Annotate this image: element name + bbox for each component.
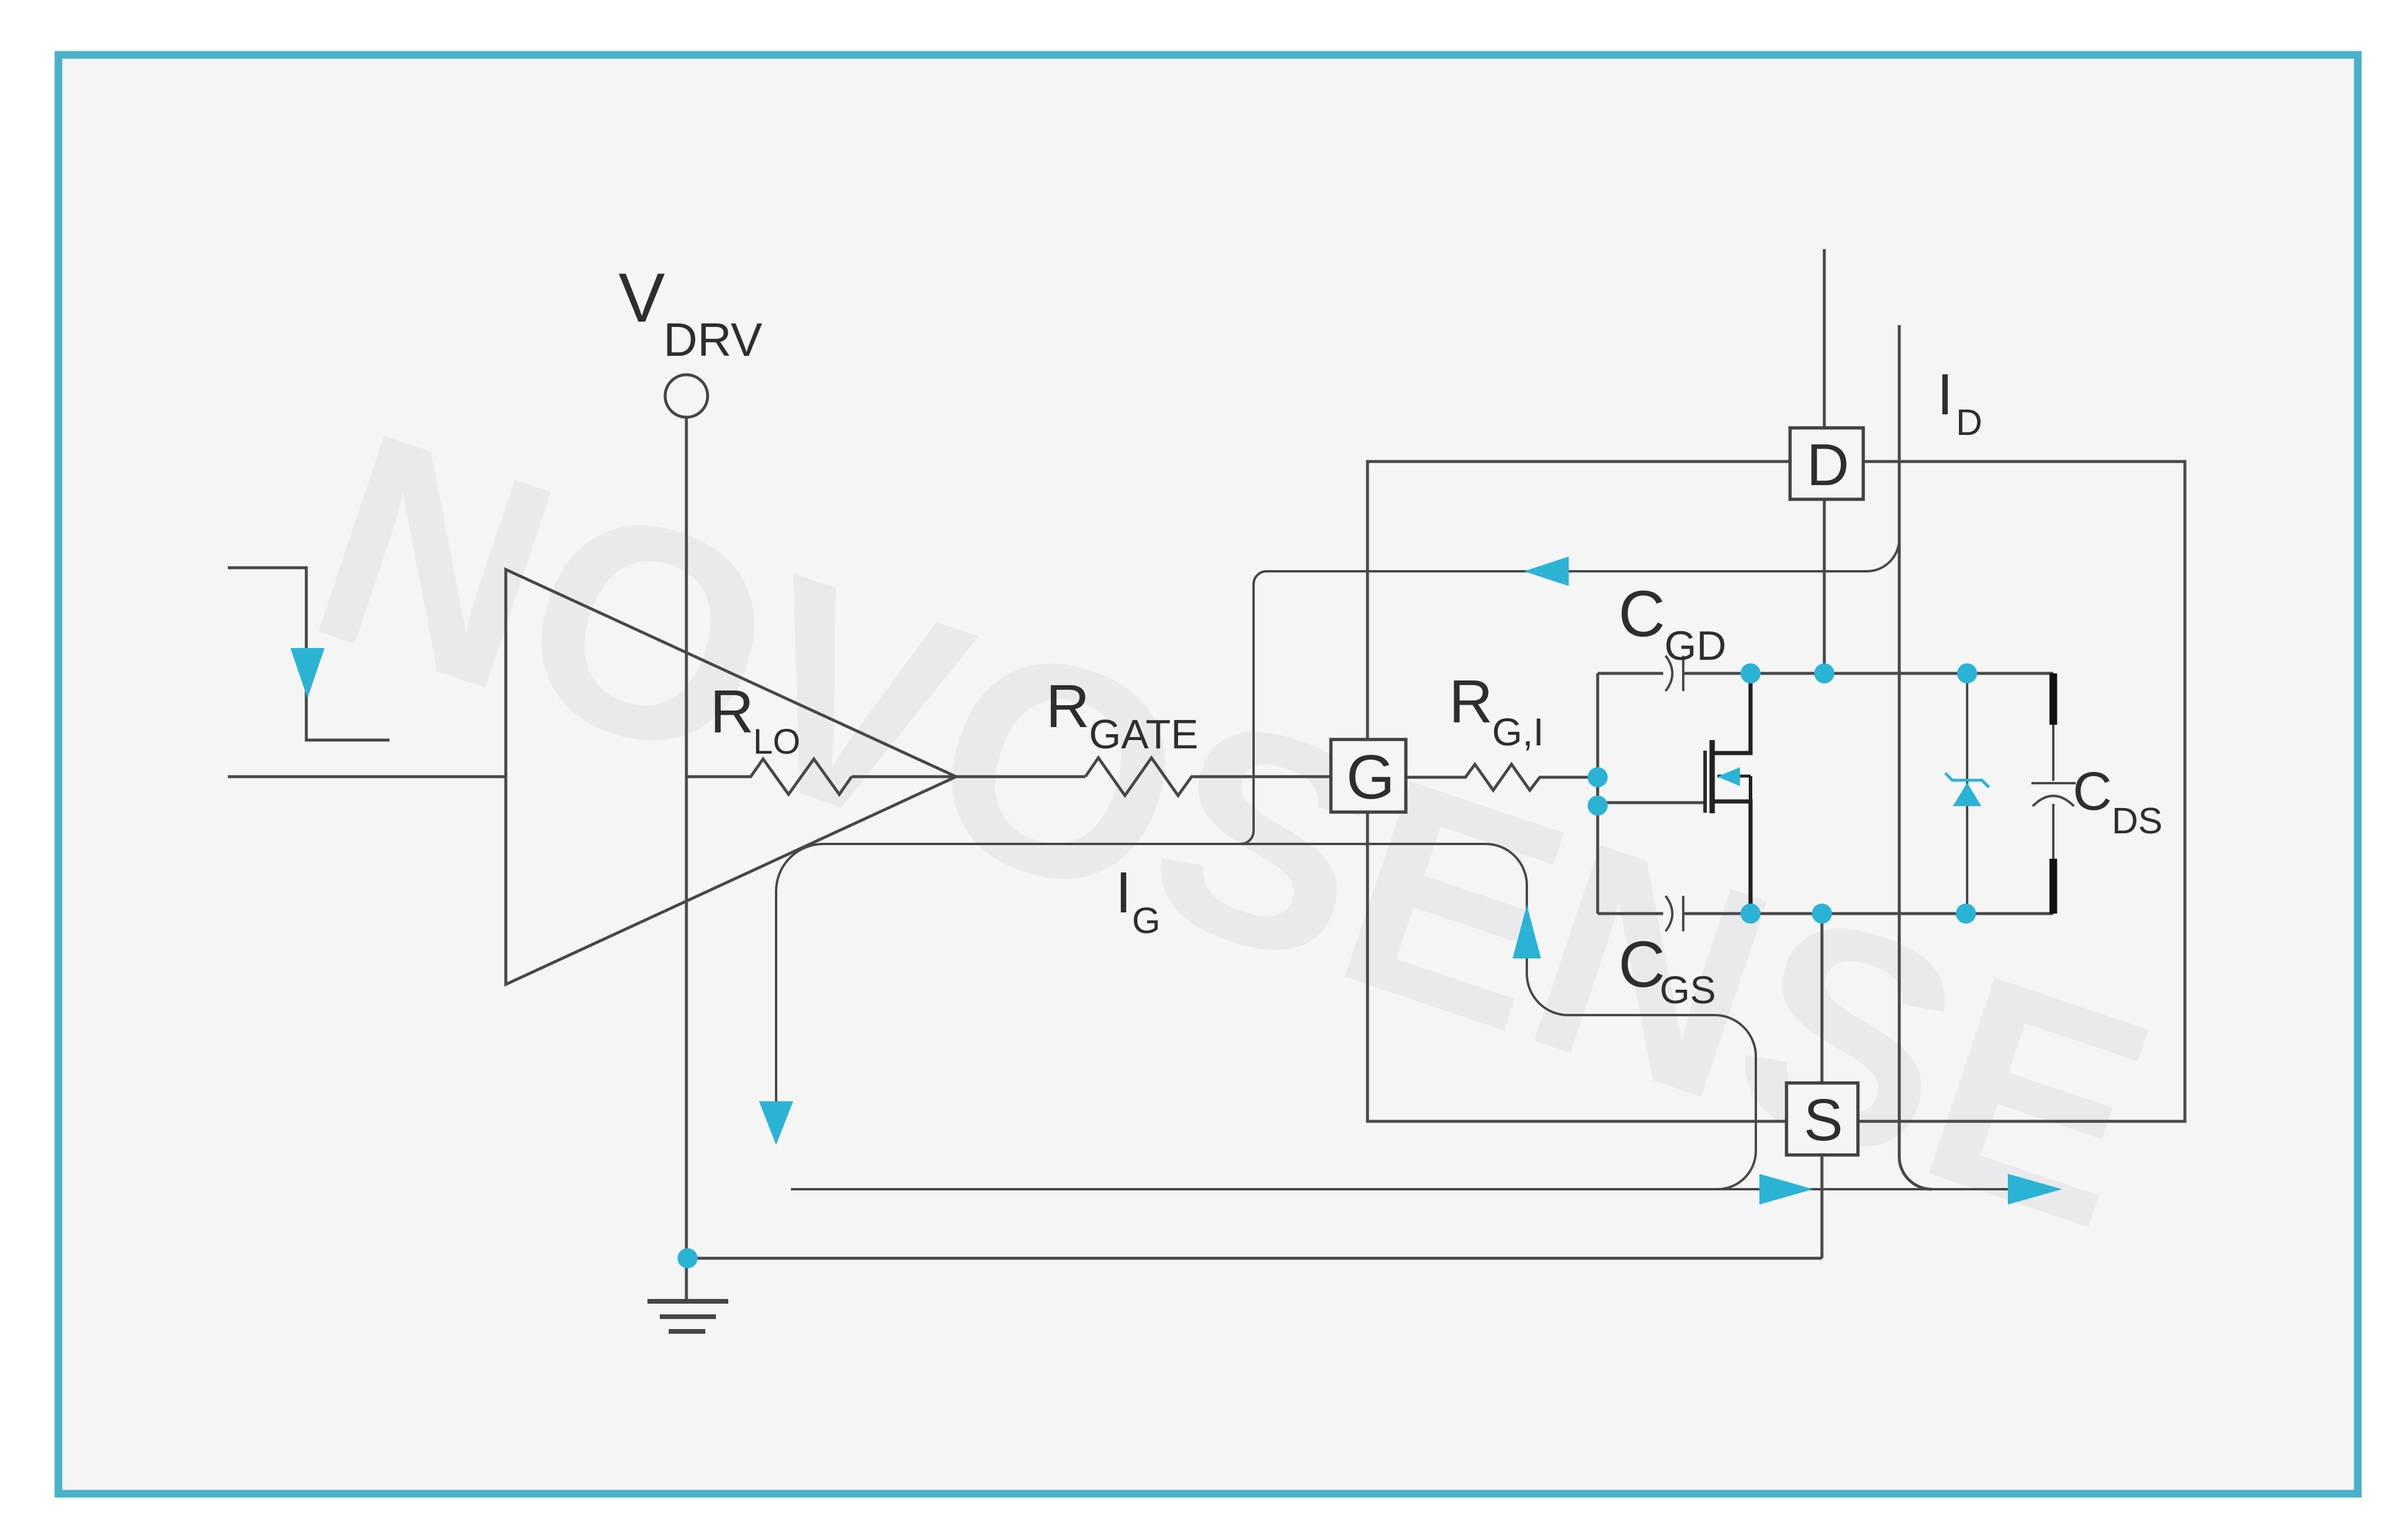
- wire: ground rail: [688, 1257, 1822, 1260]
- svg-text:D: D: [1956, 402, 1982, 443]
- svg-text:R: R: [1449, 667, 1493, 735]
- svg-text:GATE: GATE: [1089, 711, 1198, 757]
- body diode (zener): [1966, 673, 1968, 914]
- arrow: gate current down to ground: [759, 1101, 793, 1145]
- terminal V_DRV: [665, 375, 708, 417]
- current path: mid horizontal I_G line: [823, 843, 1486, 845]
- svg-text:V: V: [619, 259, 665, 337]
- arrow: return current right (1): [1759, 1174, 1813, 1205]
- svg-text:R: R: [1046, 672, 1090, 740]
- arrow: C_GS current up: [1513, 905, 1541, 958]
- resistor R_GATE: [1085, 758, 1331, 796]
- terminal box D: [1790, 428, 1863, 499]
- svg-text:C: C: [2073, 761, 2112, 822]
- svg-text:G,I: G,I: [1492, 710, 1544, 754]
- node: gate B: [1588, 796, 1608, 816]
- node: S line to rail: [1812, 904, 1832, 924]
- node: diode anode: [1956, 904, 1976, 924]
- node: drain of Q1: [1740, 663, 1761, 683]
- wire: driver output: [852, 775, 1085, 778]
- terminal box S: [1787, 1083, 1858, 1155]
- svg-text:G: G: [1132, 901, 1160, 941]
- svg-text:GS: GS: [1660, 968, 1716, 1012]
- svg-text:LO: LO: [753, 722, 800, 761]
- terminal box G: [1331, 739, 1406, 812]
- arrow: MOSFET body (left): [1717, 767, 1740, 786]
- current path: C_GD top loop (overlay): [1254, 539, 1899, 584]
- wire: driver input: [228, 775, 506, 778]
- resistor R_LO: [686, 759, 852, 794]
- svg-text:R: R: [710, 678, 754, 745]
- svg-text:G: G: [1346, 742, 1395, 812]
- wire: V_DRV rail down to ground: [685, 417, 688, 1300]
- wire: D external line: [1823, 249, 1826, 673]
- node: D line to rail: [1814, 663, 1834, 683]
- package loop with terminals: [1367, 462, 2185, 1121]
- svg-text:S: S: [1804, 1087, 1843, 1153]
- current path: vertical drop at x2124: [1241, 584, 1254, 844]
- node: diode cathode: [1957, 663, 1977, 683]
- node: source of Q1: [1740, 904, 1761, 924]
- svg-text:I: I: [1937, 362, 1953, 427]
- arrow: I into gate loop (left): [1524, 557, 1569, 586]
- svg-text:DRV: DRV: [663, 313, 763, 366]
- transistor Q1 (MOSFET): [1598, 801, 1705, 804]
- svg-text:C: C: [1618, 928, 1665, 1001]
- MOSFET cell: bottom rail (source) with capacitor C_GS: [1598, 912, 1663, 915]
- input step waveform: [228, 568, 390, 740]
- resistor R_G,I: [1406, 764, 1598, 790]
- capacitor C_DS: [2050, 673, 2057, 725]
- MOSFET cell: left rail (gate): [1596, 673, 1599, 914]
- svg-text:D: D: [1807, 432, 1849, 498]
- ground: [647, 1299, 728, 1304]
- svg-text:GD: GD: [1664, 623, 1726, 669]
- MOSFET cell: top rail (drain) with capacitor C_GD: [1598, 672, 1663, 675]
- svg-text:C: C: [1618, 578, 1665, 650]
- svg-text:I: I: [1115, 860, 1131, 925]
- node: ground junction: [678, 1248, 698, 1268]
- op-amp U1 driver triangle: [506, 570, 956, 984]
- svg-text:DS: DS: [2112, 801, 2162, 842]
- node: gate A: [1588, 767, 1608, 787]
- wire: I_D line: [1899, 325, 1932, 1189]
- wire: S terminal internal lead: [1821, 914, 1824, 1083]
- arrow: return current right (2): [2008, 1174, 2062, 1205]
- arrow: input falling-edge (down): [290, 648, 325, 698]
- current path: C_GS S-curve: [1486, 844, 1756, 1189]
- current path: to ground (down-arrow branch): [776, 844, 823, 1101]
- current path: bottom return line: [791, 1188, 2008, 1190]
- wire: S terminal external lead: [1821, 1155, 1824, 1258]
